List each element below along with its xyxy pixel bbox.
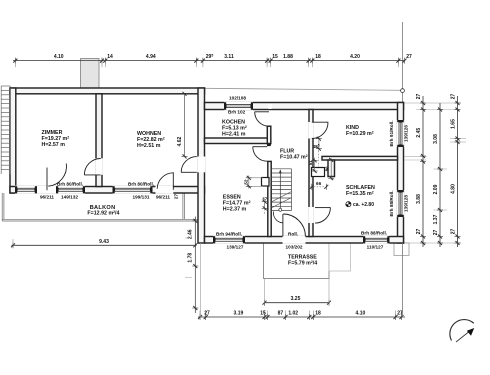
svg-text:1.88: 1.88 [283, 54, 293, 60]
svg-text:1.65: 1.65 [450, 119, 456, 129]
svg-text:3.19: 3.19 [234, 311, 244, 317]
svg-text:1.02: 1.02 [288, 311, 298, 317]
svg-text:18: 18 [315, 54, 321, 60]
svg-text:H=2.57 m: H=2.57 m [42, 142, 66, 148]
svg-text:27: 27 [406, 54, 412, 60]
svg-text:96/211: 96/211 [40, 195, 54, 200]
svg-text:66: 66 [316, 181, 322, 186]
svg-text:18: 18 [315, 311, 321, 317]
svg-text:96/211: 96/211 [156, 195, 170, 200]
svg-text:9.43: 9.43 [99, 239, 109, 245]
svg-text:4.20: 4.20 [350, 54, 360, 60]
svg-text:139/126: 139/126 [403, 125, 408, 142]
svg-text:87: 87 [278, 311, 284, 317]
svg-text:4.80: 4.80 [450, 184, 456, 194]
svg-text:27: 27 [174, 194, 179, 200]
svg-text:Brh 102: Brh 102 [228, 110, 246, 115]
svg-text:F=10.29 m2: F=10.29 m2 [346, 130, 374, 137]
svg-text:110/127: 110/127 [367, 245, 384, 250]
svg-text:2.45: 2.45 [416, 128, 422, 138]
svg-text:4.94: 4.94 [146, 54, 156, 60]
svg-text:27: 27 [416, 229, 422, 235]
svg-text:139/127: 139/127 [227, 245, 244, 250]
svg-text:14: 14 [107, 54, 113, 60]
svg-text:15: 15 [272, 54, 278, 60]
svg-text:Brh 91/Roll.: Brh 91/Roll. [389, 120, 394, 146]
svg-text:51: 51 [308, 160, 313, 166]
svg-text:52: 52 [244, 179, 249, 185]
svg-text:H=2.51 m: H=2.51 m [137, 143, 161, 149]
svg-text:15: 15 [260, 311, 266, 317]
svg-text:27: 27 [450, 229, 456, 235]
svg-text:27: 27 [204, 311, 210, 317]
svg-text:H=2.37 m: H=2.37 m [223, 206, 247, 212]
svg-text:1.78: 1.78 [188, 253, 194, 263]
svg-text:F=12.92 m2/4: F=12.92 m2/4 [87, 210, 119, 217]
svg-text:H=2.41 m: H=2.41 m [222, 131, 246, 137]
svg-text:3.11: 3.11 [224, 54, 234, 60]
svg-text:Brh 94/Roll.: Brh 94/Roll. [216, 232, 242, 237]
svg-text:2.09: 2.09 [433, 184, 439, 194]
svg-text:F=15.35 m2: F=15.35 m2 [346, 190, 374, 197]
svg-text:4.10: 4.10 [356, 311, 366, 317]
svg-text:3.25: 3.25 [291, 296, 301, 302]
svg-text:103/202: 103/202 [286, 245, 303, 250]
svg-text:1.37: 1.37 [433, 214, 439, 224]
svg-text:4.10: 4.10 [54, 54, 64, 60]
svg-text:3.88: 3.88 [416, 194, 422, 204]
svg-text:86: 86 [325, 166, 330, 172]
svg-text:3.08: 3.08 [433, 134, 439, 144]
svg-text:Brh 80/Roll.: Brh 80/Roll. [128, 182, 154, 187]
svg-text:37: 37 [262, 197, 268, 202]
svg-text:Brh 80/Roll.: Brh 80/Roll. [57, 182, 83, 187]
svg-text:F=10.47 m2: F=10.47 m2 [280, 154, 308, 161]
svg-text:149/132: 149/132 [61, 195, 78, 200]
svg-text:199/131: 199/131 [133, 195, 150, 200]
svg-text:4.62: 4.62 [177, 137, 183, 147]
svg-text:27: 27 [433, 230, 439, 236]
svg-text:Brh 88/Roll.: Brh 88/Roll. [361, 231, 387, 236]
svg-text:Brh 88/Roll.: Brh 88/Roll. [389, 190, 394, 216]
svg-text:27: 27 [450, 94, 456, 100]
svg-text:F=5.79 m2/4: F=5.79 m2/4 [288, 260, 317, 267]
svg-text:102/108: 102/108 [229, 95, 246, 100]
svg-text:ca. +2.80: ca. +2.80 [353, 202, 374, 208]
svg-text:139/128: 139/128 [403, 195, 408, 212]
svg-text:2.46: 2.46 [188, 229, 194, 239]
svg-text:Roll.: Roll. [288, 232, 298, 237]
svg-text:27: 27 [416, 94, 422, 100]
